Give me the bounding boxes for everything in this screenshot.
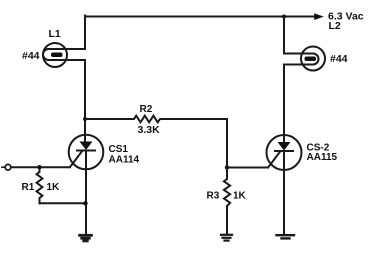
wire right vertical middle xyxy=(283,65,285,142)
svg-text:R1: R1 xyxy=(22,182,35,193)
resistor R1 xyxy=(37,167,43,203)
node 6.3 Vac arrowhead xyxy=(314,13,324,20)
svg-text:1K: 1K xyxy=(47,182,61,193)
svg-text:R2: R2 xyxy=(140,104,153,115)
svg-text:L2: L2 xyxy=(329,20,341,32)
wire gate horizontal CS2 xyxy=(227,167,268,169)
svg-text:#44: #44 xyxy=(330,53,348,65)
ground right xyxy=(277,235,295,238)
lamp L1 xyxy=(43,43,85,67)
wire CS1 cathode vertical xyxy=(85,151,87,234)
wire left vertical upper xyxy=(84,16,86,50)
wire top horizontal to arrow xyxy=(85,16,315,18)
node junction top right xyxy=(282,15,286,19)
node junction middle xyxy=(225,165,229,169)
transistor CS1 (SCR) xyxy=(69,135,104,170)
resistor R2 xyxy=(85,116,227,123)
wire R1 bottom return xyxy=(40,202,86,204)
svg-text:AA114: AA114 xyxy=(109,155,140,166)
svg-text:L1: L1 xyxy=(49,28,61,40)
lamp L2 xyxy=(284,47,325,71)
svg-text:AA115: AA115 xyxy=(307,152,338,163)
wire R2 branch vertical xyxy=(226,119,228,168)
transistor CS2 (SCR) xyxy=(267,135,302,170)
ground middle xyxy=(221,235,232,241)
svg-text:R3: R3 xyxy=(207,190,220,201)
svg-text:3.3K: 3.3K xyxy=(138,124,161,136)
node junction bottom left xyxy=(83,201,87,205)
svg-text:CS1: CS1 xyxy=(109,144,129,155)
node junction R1 top xyxy=(37,165,41,169)
resistor R3 xyxy=(224,168,230,234)
node junction R2 left xyxy=(83,117,87,121)
ground left xyxy=(80,235,92,241)
node input terminal xyxy=(2,164,11,170)
wire left vertical middle xyxy=(84,60,86,141)
svg-text:1K: 1K xyxy=(233,190,247,201)
wire CS2 cathode vertical xyxy=(283,151,285,234)
svg-text:#44: #44 xyxy=(22,50,40,62)
wire gate horizontal left xyxy=(11,166,70,168)
wire right vertical upper xyxy=(283,17,285,54)
